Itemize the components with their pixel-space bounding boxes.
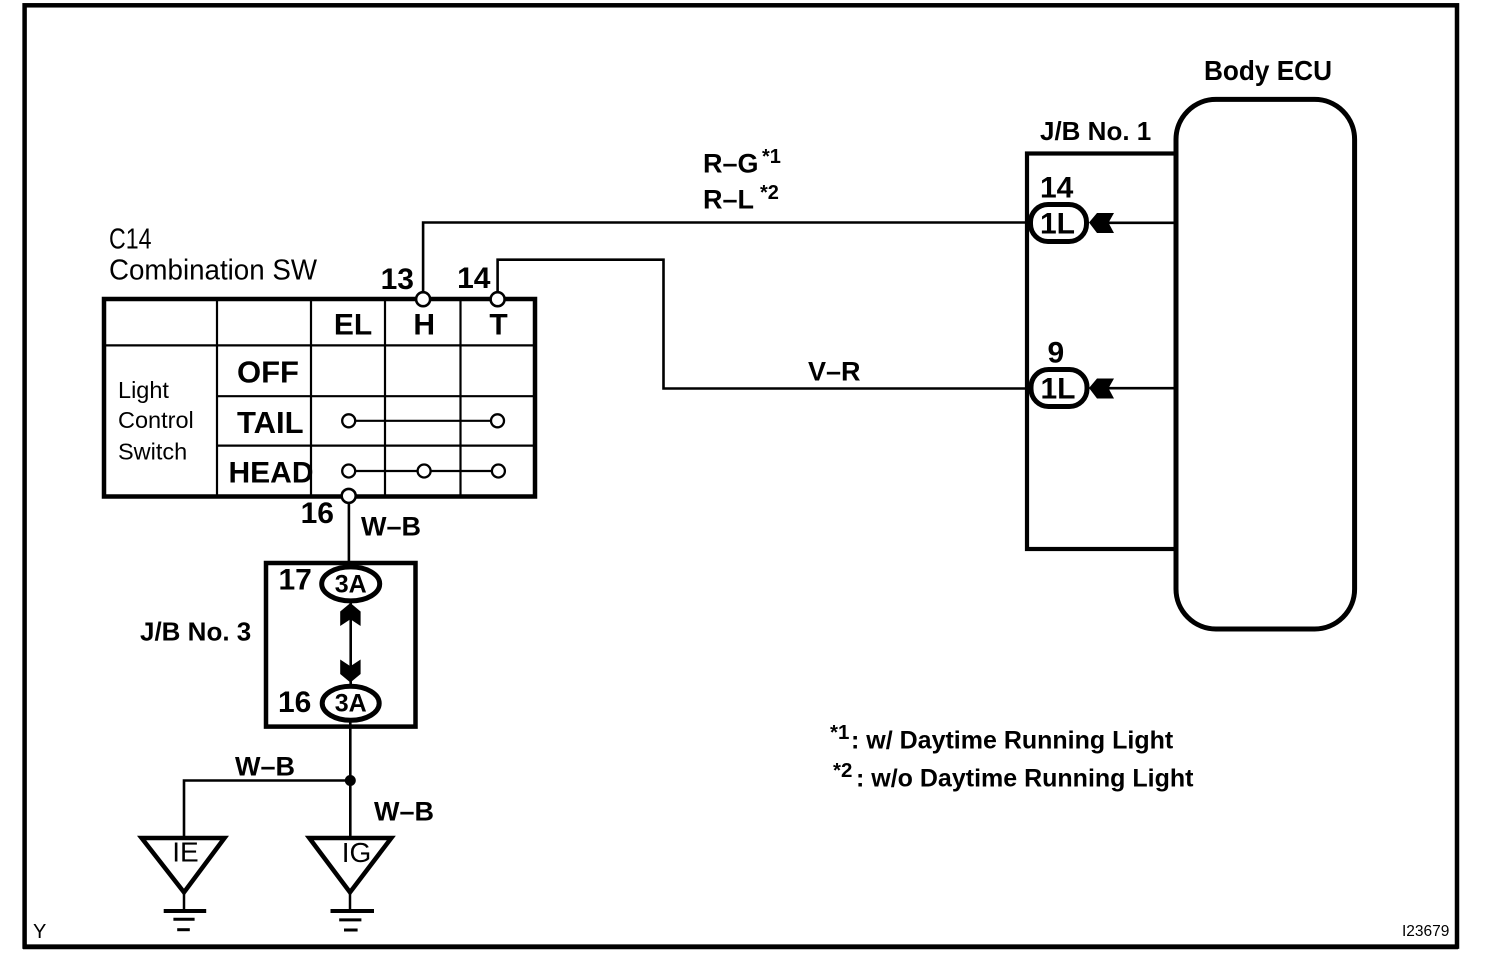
svg-text:R–L: R–L	[703, 185, 754, 215]
svg-text:OFF: OFF	[237, 354, 299, 389]
svg-text:1L: 1L	[1040, 208, 1075, 241]
svg-text:Combination SW: Combination SW	[109, 255, 317, 287]
contact circle TAIL EL	[342, 414, 355, 427]
svg-text:17: 17	[279, 564, 312, 597]
svg-text:16: 16	[301, 497, 334, 530]
svg-text:Switch: Switch	[118, 439, 187, 465]
combination switch table C14	[104, 299, 535, 497]
terminal 14 circle	[491, 292, 505, 306]
svg-text:13: 13	[381, 263, 414, 296]
J/B No.1 box	[1027, 154, 1176, 550]
down arrowhead inside J/B No.3	[340, 660, 360, 683]
svg-text:: w/o Daytime Running Light: : w/o Daytime Running Light	[856, 765, 1194, 793]
ground IE triangle	[142, 838, 225, 892]
arrowhead into connector 1L pin 14	[1089, 213, 1114, 233]
fuse connector 3A pin 17 oval	[322, 567, 380, 601]
wire: combination SW terminal 16 down to J/B No.3 (W-B)	[348, 496, 351, 568]
arrowhead into connector 1L pin 9	[1089, 379, 1114, 399]
contact circle TAIL T	[491, 414, 504, 427]
Body ECU block U1	[1176, 99, 1355, 629]
svg-text:1L: 1L	[1040, 373, 1075, 406]
terminal 13 circle	[416, 292, 430, 306]
junction dot	[345, 775, 356, 786]
svg-text:IG: IG	[342, 837, 372, 868]
svg-text:*1: *1	[830, 721, 849, 744]
wire: J/B No.3 down to ground junction (W-B)	[349, 718, 352, 781]
ground IG triangle	[309, 838, 391, 892]
ground IG stem and bars	[349, 892, 352, 911]
fuse connector 3A pin 16 oval	[322, 686, 379, 720]
svg-text:W–B: W–B	[374, 797, 434, 827]
svg-text:R–G: R–G	[703, 149, 759, 179]
svg-text:14: 14	[457, 262, 491, 295]
svg-text:Body ECU: Body ECU	[1204, 55, 1332, 86]
wire: junction down to IG ground	[349, 781, 352, 837]
svg-text:I23679: I23679	[1402, 923, 1449, 940]
up arrowhead inside J/B No.3	[340, 603, 360, 626]
svg-text:HEAD: HEAD	[229, 457, 314, 490]
svg-text:C14: C14	[109, 224, 152, 256]
svg-text:Y: Y	[33, 921, 46, 943]
svg-text:IE: IE	[172, 837, 198, 868]
svg-text:9: 9	[1048, 337, 1065, 370]
svg-text:J/B No. 3: J/B No. 3	[140, 617, 251, 647]
svg-text:Control: Control	[118, 407, 194, 433]
terminal 16 circle	[342, 489, 356, 503]
svg-text:: w/ Daytime Running Light: : w/ Daytime Running Light	[851, 727, 1174, 755]
wire: inside J/B No.3 between fuse connectors 3A	[349, 600, 352, 687]
wire: Body ECU to arrow at connector 1L pin 14	[1108, 222, 1178, 225]
wire: combination SW terminal 13 to J/B No.1 connector 1L pin 14 (R-G/R-L)	[423, 223, 1033, 300]
J/B No.3 box	[266, 563, 416, 727]
contact circle HEAD T	[492, 465, 505, 478]
connector 1L pin 14 oval	[1031, 205, 1087, 242]
wire: combination SW terminal 14 to J/B No.1 connector 1L pin 9 (V-R)	[498, 260, 1033, 389]
svg-text:3A: 3A	[335, 571, 367, 599]
svg-text:14: 14	[1040, 172, 1074, 205]
svg-text:W–B: W–B	[235, 752, 295, 782]
svg-text:*2: *2	[833, 759, 852, 782]
svg-text:H: H	[413, 309, 435, 342]
ground IE stem and bars	[183, 892, 186, 911]
svg-text:W–B: W–B	[361, 512, 421, 542]
switch contact line HEAD row	[352, 470, 494, 472]
svg-text:EL: EL	[334, 309, 372, 342]
svg-text:J/B No. 1: J/B No. 1	[1040, 116, 1151, 146]
svg-text:*1: *1	[762, 146, 781, 168]
svg-text:V–R: V–R	[808, 357, 861, 387]
svg-text:16: 16	[278, 686, 311, 719]
contact circle HEAD H	[418, 465, 431, 478]
contact circle HEAD EL	[342, 465, 355, 478]
svg-text:3A: 3A	[335, 690, 367, 718]
switch contact line TAIL row	[352, 420, 494, 422]
svg-text:TAIL: TAIL	[237, 405, 304, 440]
svg-text:*2: *2	[760, 182, 779, 204]
svg-text:Light: Light	[118, 377, 169, 403]
svg-text:T: T	[489, 309, 507, 342]
connector 1L pin 9 oval	[1031, 370, 1087, 407]
wire: junction to IE ground branch (W-B)	[184, 781, 350, 837]
wire: Body ECU to arrow at connector 1L pin 9	[1108, 387, 1178, 390]
